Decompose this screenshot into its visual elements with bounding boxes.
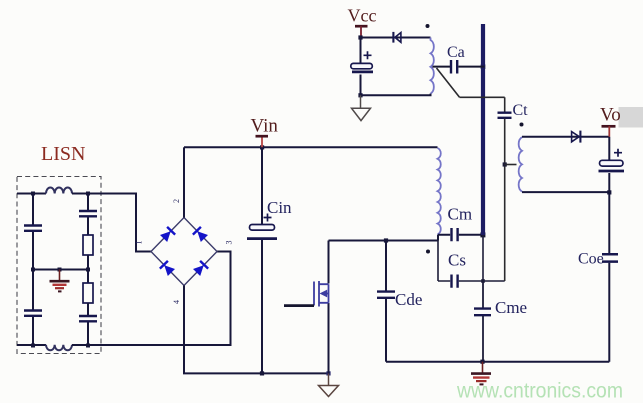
node LISN middle-left (31, 268, 35, 272)
wire aux to Ca (433, 66, 451, 68)
resistor LISN R1 (83, 235, 93, 255)
node Vcc (358, 35, 362, 39)
capacitor LISN C3 (79, 211, 97, 216)
capacitor Ca (451, 60, 457, 74)
capacitor LISN C4 (79, 316, 97, 321)
bridge rectifier diamond (151, 218, 217, 286)
diode bridge D2 (top-right) (193, 227, 209, 243)
wire LISN bottom left (17, 344, 46, 346)
node Ca-core terminal (481, 64, 486, 69)
wire tap to secondary (505, 164, 517, 166)
power port Vo (602, 126, 616, 137)
wire diagonal aux tap (437, 68, 460, 97)
node output bottom (607, 190, 611, 194)
wire bridge pin2 up (183, 147, 185, 217)
capacitor C-vcc (351, 38, 373, 96)
svg-text:Vcc: Vcc (348, 6, 377, 26)
diode D5 (aux) (393, 32, 401, 43)
svg-text:Coe: Coe (578, 251, 604, 268)
diode bridge D1 (top-left) (160, 227, 176, 243)
svg-text:www.cntronics.com: www.cntronics.com (456, 379, 623, 403)
wire primary bottom node (438, 235, 450, 241)
svg-text:3: 3 (225, 241, 234, 245)
diode bridge D4 (bottom-right) (193, 261, 209, 277)
node LISN top-left junction (31, 192, 35, 196)
power port Vin (256, 136, 269, 147)
svg-text:Vin: Vin (251, 116, 279, 137)
primary winding T1 (438, 148, 441, 234)
capacitor Coe (602, 254, 618, 261)
node LISN top-right junction (86, 192, 90, 196)
wire drain rail to primary (329, 240, 439, 242)
svg-text:2: 2 (172, 199, 181, 203)
ground earth (under Cme) (471, 362, 491, 385)
capacitor Ct (498, 113, 512, 118)
wire Cs box left (437, 235, 439, 281)
capacitor Cme (474, 281, 491, 362)
LISN dashed box (17, 177, 101, 354)
wire Cin bottom (261, 240, 263, 373)
secondary winding T1s (519, 137, 522, 191)
node LISN middle-center (58, 268, 62, 272)
svg-text:Cde: Cde (395, 290, 422, 309)
wire LISN left branch upper (32, 194, 34, 226)
node Cm-core terminal (480, 232, 485, 237)
node aux phase dot (426, 24, 430, 28)
wire (87, 255, 89, 283)
svg-text:1: 1 (135, 241, 144, 245)
diode bridge D3 (bottom-left) (160, 261, 176, 277)
capacitor Cs (452, 275, 458, 288)
wire Cin top (261, 147, 263, 224)
ground LISN earth (50, 270, 70, 292)
wire Cs box bottom (438, 280, 505, 282)
wire LISN middle (33, 269, 88, 271)
capacitor C-out (599, 137, 625, 193)
wire LISN right branch top (87, 194, 89, 211)
wire secondary bottom (522, 191, 609, 193)
node Cme top (481, 279, 485, 283)
ground triangle (Vcc) (352, 95, 371, 120)
svg-text:Cin: Cin (267, 198, 292, 217)
wire Vcc bottom to aux winding bottom (361, 94, 431, 96)
svg-text:Cm: Cm (448, 205, 473, 224)
wire (87, 303, 89, 316)
wire Cm to core (459, 234, 485, 236)
wire Ct top (504, 97, 506, 112)
wire (87, 218, 89, 236)
diode D6 (output) (572, 131, 581, 143)
wire Vin rail (184, 146, 438, 148)
wire Ct bottom (504, 119, 506, 282)
node Cde top (384, 238, 388, 242)
wire LISN left branch lower (32, 270, 34, 311)
transformer core (thick bar) (481, 24, 485, 235)
transistor Q1 MOSFET (284, 241, 329, 374)
wire Coe bottom (608, 263, 610, 362)
inductor L2 (LISN bottom) (46, 345, 72, 351)
node LISN bottom-right (86, 344, 90, 348)
node primary phase dot (426, 250, 430, 254)
node secondary tap (503, 162, 507, 166)
wire horizontal to Ct (460, 96, 505, 98)
svg-text:LISN: LISN (41, 143, 85, 165)
wire bridge pin4 down (184, 286, 329, 374)
inductor L1 (LISN top) (46, 187, 72, 193)
svg-text:Cme: Cme (495, 298, 527, 317)
node secondary phase dot (520, 123, 524, 127)
svg-text:Cs: Cs (448, 251, 466, 270)
wire LISN top right to bridge (72, 194, 151, 252)
wire core bottom down (482, 235, 484, 281)
wire LISN left branch bottom (32, 317, 34, 346)
wire (87, 323, 89, 346)
capacitor LISN C1 (24, 226, 42, 231)
wire Vcc to aux winding (361, 37, 431, 39)
wire output right down (608, 192, 610, 253)
wire LISN top left (17, 193, 46, 195)
capacitor Cm (452, 228, 458, 241)
node LISN bottom-left (31, 344, 35, 348)
capacitor Cde (377, 241, 395, 362)
node Cin-rail (260, 371, 264, 375)
capacitor LISN C2 (24, 311, 42, 316)
wire secondary top (522, 136, 609, 138)
node LISN middle-right (86, 268, 90, 272)
aux winding T1b (431, 38, 434, 94)
ground triangle (under MOSFET) (319, 373, 339, 396)
svg-text:Vo: Vo (600, 105, 621, 126)
label Vo grey box (619, 107, 643, 128)
capacitor Cin (247, 214, 277, 239)
wire LISN left branch middle (32, 232, 34, 270)
wire LISN bottom to bridge pin3 (72, 252, 231, 346)
wire Ca to core (459, 66, 485, 68)
power port Vcc (355, 26, 368, 37)
node earth rail (480, 360, 484, 364)
node Vcc cap bottom (358, 93, 362, 97)
svg-text:4: 4 (172, 300, 181, 304)
node MOSFET source rail corner (326, 371, 330, 375)
wire bottom earth rail (386, 361, 609, 363)
node Vin (260, 145, 264, 149)
resistor LISN R2 (83, 283, 93, 303)
svg-text:Ca: Ca (447, 44, 465, 61)
svg-text:Ct: Ct (513, 102, 529, 119)
